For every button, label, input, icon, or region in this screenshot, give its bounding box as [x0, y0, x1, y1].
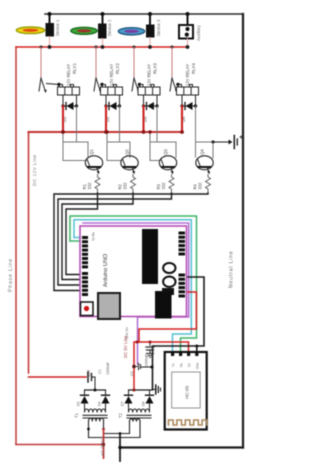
- wire R2 to arduino pin: [62, 193, 133, 280]
- wire black gnd to HC05: [153, 277, 205, 389]
- wire phase left rail: [15, 47, 17, 445]
- lamp L3: [118, 28, 144, 35]
- resistor R1: [95, 175, 100, 194]
- svg-text:DC 12V Line: DC 12V Line: [32, 154, 38, 186]
- header right group2: [179, 274, 186, 298]
- relay RLY3 coil: [138, 85, 160, 96]
- svg-text:D6: D6: [98, 402, 102, 406]
- wire R3 to arduino pin: [58, 193, 172, 285]
- op board Arduino UNO: [80, 226, 187, 317]
- transformer T1: [83, 408, 107, 422]
- wire coil to collector Q4: [195, 106, 197, 157]
- relay RLY1 coil: [58, 85, 80, 96]
- svg-text:Device 2: Device 2: [107, 19, 112, 36]
- diode D2 flyback: [104, 95, 121, 122]
- svg-text:12V RELAY: 12V RELAY: [66, 64, 71, 86]
- resistor R2: [131, 175, 136, 194]
- wire R4 to arduino pin: [54, 193, 208, 291]
- lamp L1: [16, 27, 44, 34]
- resistor R3: [169, 175, 174, 194]
- wire neutral right rail: [242, 14, 244, 448]
- device D2 socket: [98, 12, 112, 47]
- module antenna: [169, 420, 207, 425]
- svg-text:332: 332: [198, 182, 203, 190]
- svg-text:DC 5V Line: DC 5V Line: [123, 335, 128, 358]
- capacitor C1 1000uF: [88, 372, 95, 390]
- diode D5: [77, 390, 89, 408]
- diode D8: [142, 390, 154, 408]
- capacitor C2 1000uF: [146, 342, 154, 357]
- resistor R4: [206, 175, 211, 194]
- wire coil to collector Q3: [156, 106, 158, 142]
- relay RLY4 coil: [177, 85, 199, 96]
- svg-text:D5: D5: [77, 402, 81, 406]
- svg-text:Q4: Q4: [200, 149, 205, 155]
- wire phase top rail: [16, 46, 188, 48]
- svg-text:12V RELAY: 12V RELAY: [109, 64, 114, 86]
- relay RLY4 contact: [171, 47, 173, 78]
- svg-text:Tx: Tx: [172, 363, 176, 367]
- wire rectifier bus left: [85, 389, 106, 391]
- svg-text:12V RELAY: 12V RELAY: [185, 64, 190, 86]
- lamp L2: [71, 27, 97, 34]
- barrel jack: [155, 291, 172, 319]
- device D3 socket: [146, 12, 161, 47]
- wire primary leads T1: [88, 421, 90, 438]
- device D1 socket: [46, 12, 61, 47]
- svg-text:RLY1: RLY1: [72, 63, 77, 74]
- USB connector: [98, 293, 120, 319]
- wire relay coil to bus: [62, 106, 64, 132]
- IC U1 (ATmega): [142, 229, 158, 284]
- svg-text:Q3: Q3: [163, 149, 168, 155]
- svg-text:D8: D8: [142, 402, 146, 406]
- wire coil to collector Q1: [76, 106, 78, 142]
- capacitor C3: [134, 364, 153, 370]
- svg-text:332: 332: [87, 182, 92, 190]
- svg-text:RLY2: RLY2: [115, 63, 120, 74]
- svg-text:Tx Rx: Tx Rx: [92, 232, 96, 241]
- module HC-05: [165, 352, 207, 430]
- svg-text:Rx: Rx: [180, 363, 184, 367]
- wire cyan (HC05 Rx loop): [74, 220, 191, 352]
- svg-text:1000uF: 1000uF: [145, 353, 149, 367]
- transistor Q1: [85, 156, 102, 175]
- relay RLY3 contact: [133, 47, 135, 78]
- diode D3 flyback: [142, 95, 159, 122]
- diode D7: [121, 390, 133, 408]
- wire DC12V bus: [29, 131, 183, 133]
- header right group1: [179, 232, 186, 256]
- svg-text:D7: D7: [121, 402, 125, 406]
- wire primary leads T2: [130, 421, 141, 438]
- relay RLY1 contact: [40, 47, 42, 78]
- wire neutral top rail: [45, 13, 243, 15]
- wire relay coil to bus: [105, 106, 107, 132]
- wire neutral bottom rail: [120, 446, 243, 448]
- wire AC phase in: [103, 421, 105, 429]
- wire DC12V vertical: [28, 133, 30, 373]
- svg-text:332: 332: [123, 182, 128, 190]
- wire rectifier bus right: [129, 389, 153, 391]
- wire AC neutral in: [119, 434, 121, 462]
- svg-text:C3: C3: [130, 371, 134, 376]
- transistor Q2: [121, 156, 138, 175]
- relay RLY2 coil: [101, 85, 123, 96]
- svg-text:Device 1: Device 1: [55, 19, 60, 36]
- battery 12V: [213, 136, 242, 149]
- wire violet (5V loop): [83, 223, 189, 364]
- auxiliary socket: [179, 12, 201, 47]
- header left group1: [82, 236, 88, 268]
- transistor Q4: [196, 156, 213, 175]
- svg-text:12V RELAY: 12V RELAY: [147, 64, 152, 86]
- diode D6: [98, 390, 110, 408]
- svg-text:RLY4: RLY4: [191, 63, 196, 74]
- svg-text:Q2: Q2: [125, 149, 130, 155]
- svg-text:HC-05: HC-05: [185, 385, 190, 399]
- wire coil to collector Q2: [119, 106, 121, 142]
- wire phase bottom rail: [16, 444, 104, 446]
- wire green (HC05 Tx loop): [70, 216, 197, 352]
- transistor Q3: [159, 156, 176, 175]
- relay RLY2 contact: [95, 47, 97, 78]
- svg-text:1000uF: 1000uF: [106, 361, 110, 375]
- svg-text:RLY3: RLY3: [153, 63, 158, 74]
- svg-text:Neutral Line: Neutral Line: [229, 250, 235, 288]
- module pins: [171, 352, 198, 356]
- wire relay coil to bus: [181, 106, 183, 132]
- svg-text:Gnd: Gnd: [196, 363, 200, 369]
- wire 12V feed: [29, 376, 87, 378]
- wire primary bus upper: [104, 433, 130, 435]
- svg-text:Auxiliary: Auxiliary: [196, 24, 201, 41]
- transformer T2: [127, 408, 151, 422]
- svg-text:C1: C1: [98, 369, 102, 374]
- wire red 5V to HC05: [139, 292, 196, 352]
- svg-text:Arduino UNO: Arduino UNO: [103, 253, 109, 287]
- svg-text:AC 220V: AC 220V: [100, 439, 105, 456]
- diode D4 flyback: [180, 95, 197, 122]
- svg-text:Q1: Q1: [89, 149, 94, 155]
- svg-text:T1: T1: [74, 412, 79, 418]
- svg-text:Device 3: Device 3: [156, 19, 161, 36]
- header left group2: [82, 272, 88, 296]
- svg-text:332: 332: [161, 182, 166, 190]
- ground symbol: [153, 385, 161, 394]
- wire primary bus lower: [89, 437, 141, 439]
- svg-text:Phase Line: Phase Line: [8, 258, 14, 292]
- crystal circles: [163, 263, 175, 273]
- diode D1 flyback: [61, 95, 78, 122]
- wire relay coil to bus: [142, 106, 144, 132]
- reset button: [81, 302, 94, 316]
- ICSP header: [162, 288, 174, 295]
- svg-text:T2: T2: [118, 412, 123, 418]
- wire R1 to arduino pin: [66, 193, 98, 275]
- junction dots on phase rail: [40, 45, 190, 49]
